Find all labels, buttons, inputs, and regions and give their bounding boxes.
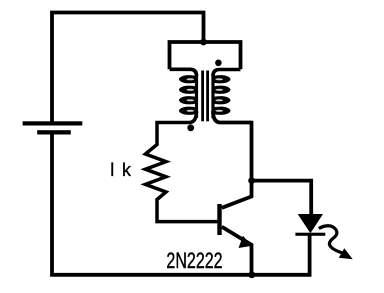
svg-text:l: l — [110, 160, 114, 180]
svg-text:k: k — [122, 160, 132, 180]
svg-text:2N2222: 2N2222 — [166, 248, 222, 273]
